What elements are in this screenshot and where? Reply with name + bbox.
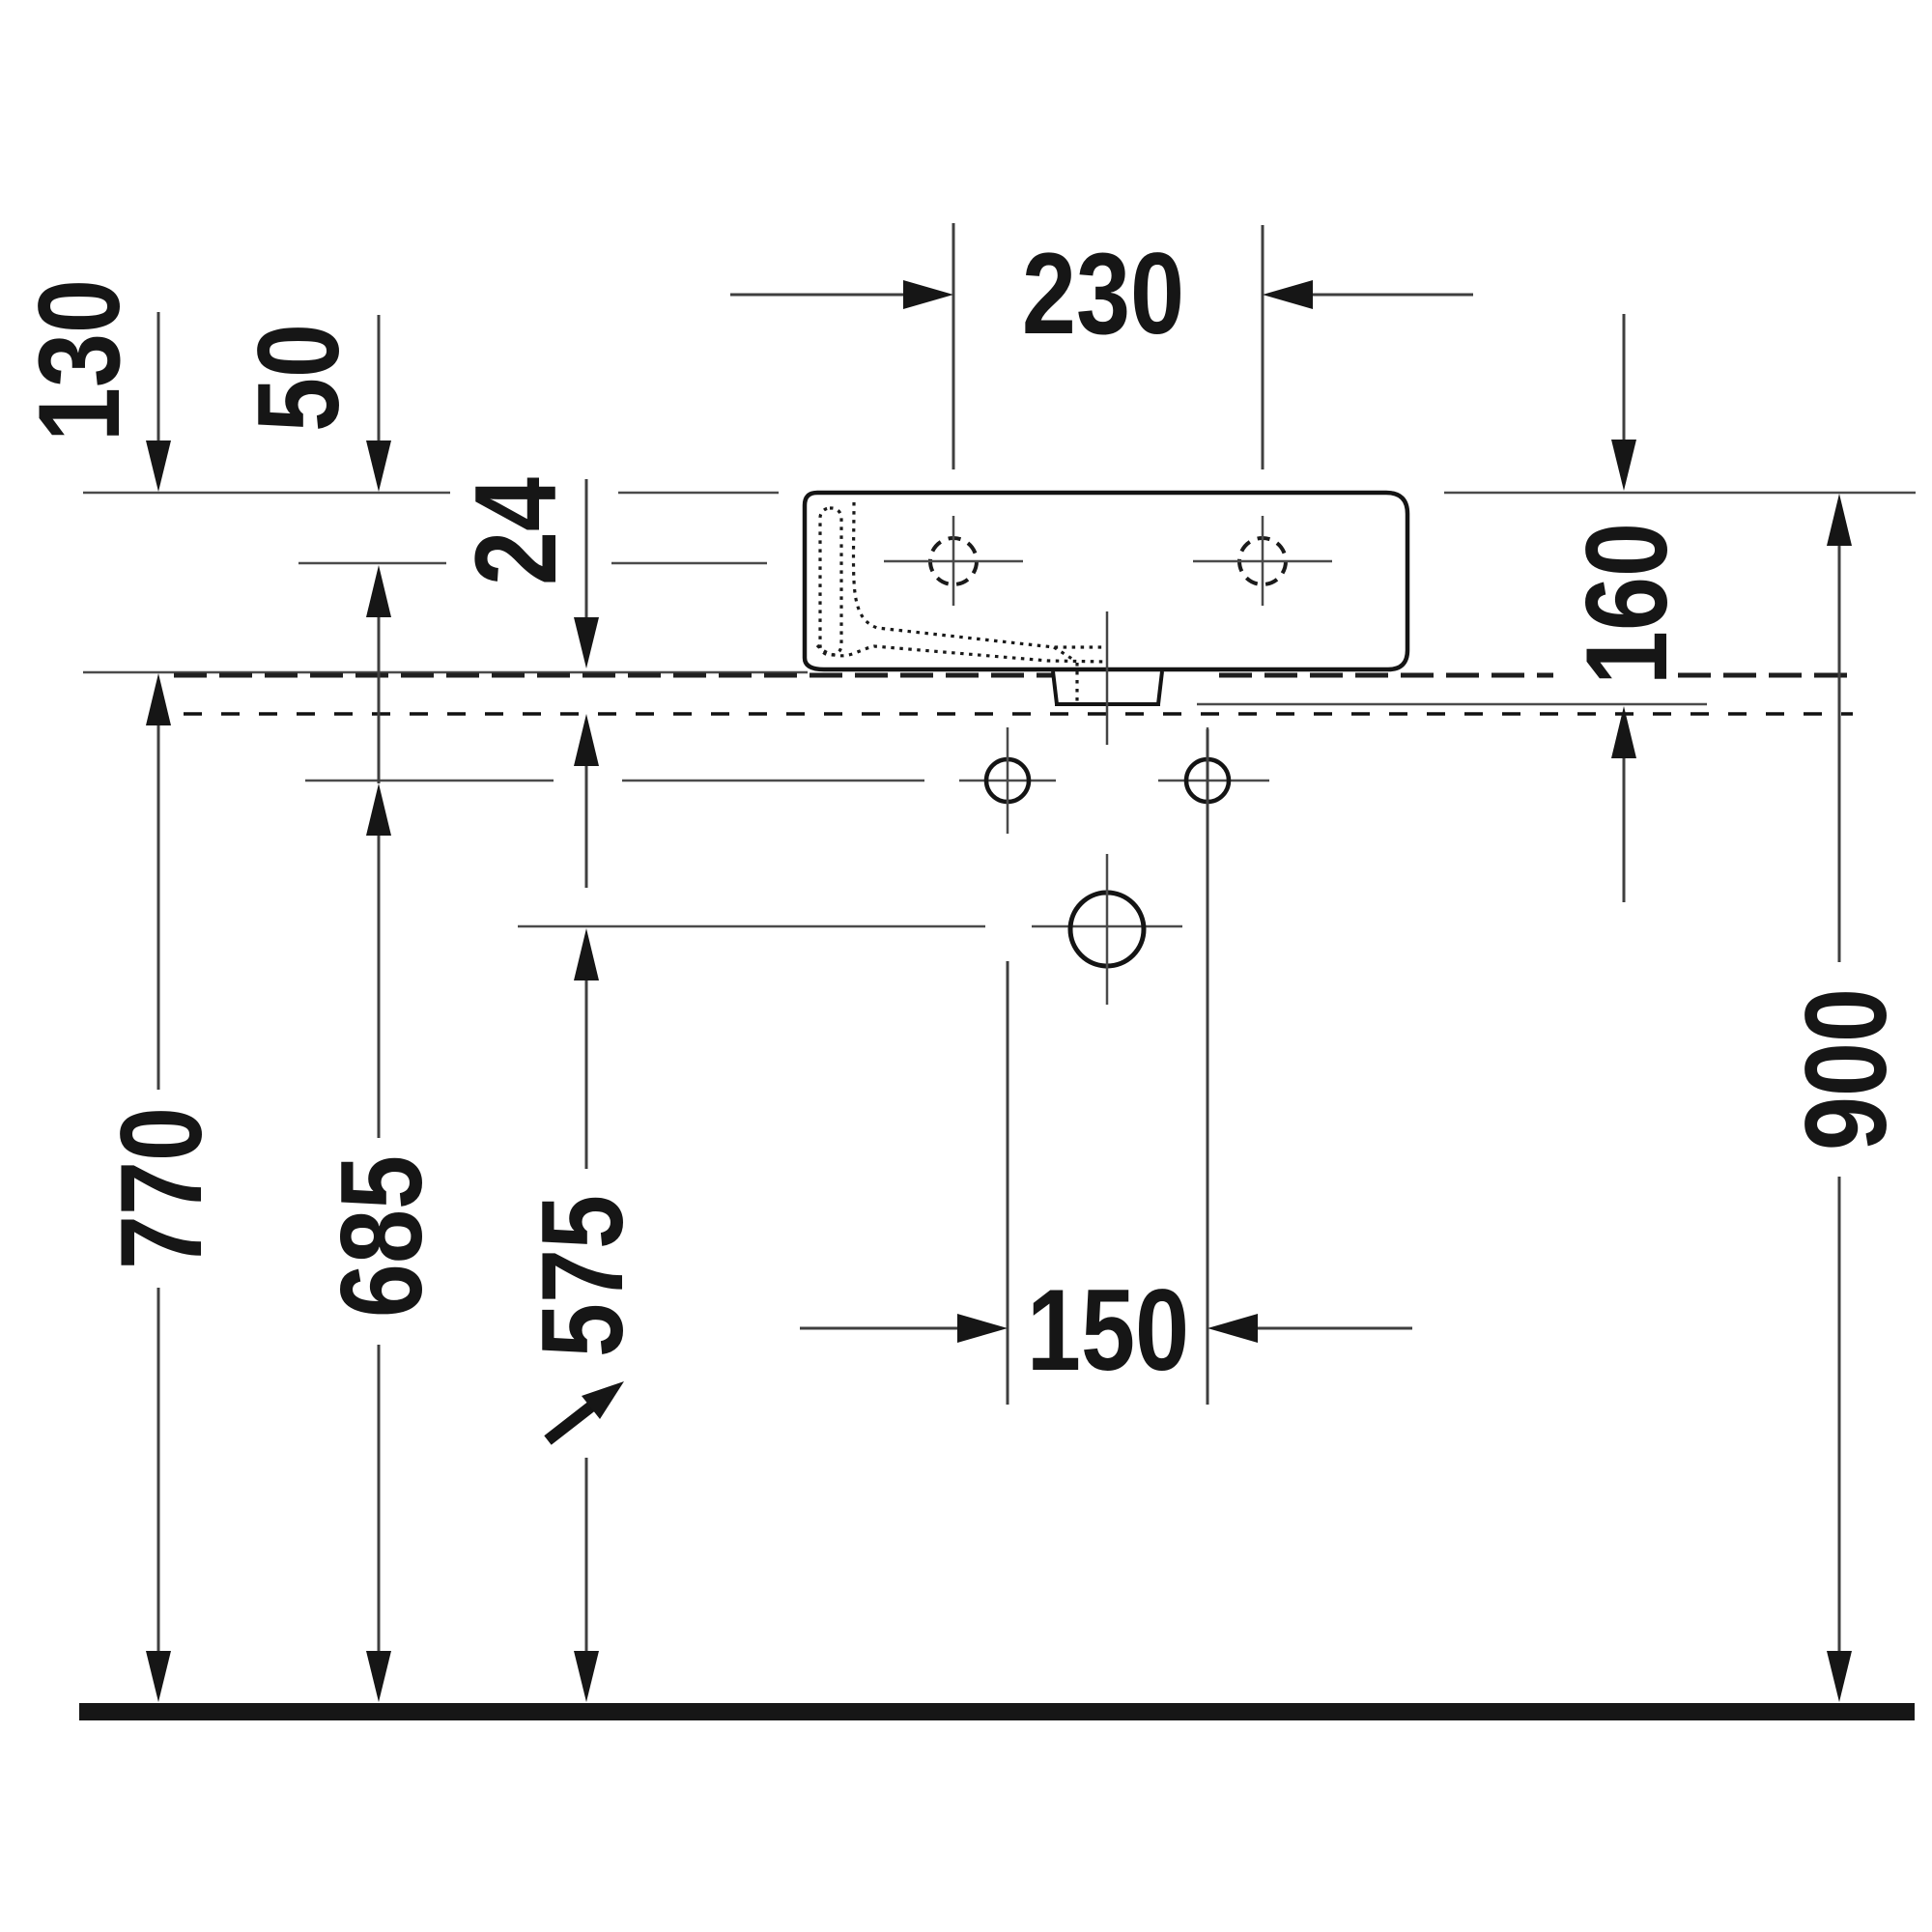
svg-text:900: 900: [1782, 988, 1911, 1151]
dimension 130-770 line x164: [157, 312, 160, 1651]
dimension 50-685 line x392: [378, 315, 381, 1651]
basin overflow slot dotted: [820, 508, 841, 655]
arrow up tip 511 x1904: [1827, 494, 1852, 546]
wire: fixing-hole axis y808 segments: [305, 780, 1269, 782]
fixing hole right crosshair vertical: [1207, 727, 1209, 834]
drain hole circle: [1070, 893, 1144, 966]
svg-text:150: 150: [1027, 1266, 1189, 1395]
arrow left tip 1307 y305: [1263, 280, 1313, 309]
dimension 160 line x1681: [1623, 314, 1626, 902]
svg-text:130: 130: [15, 279, 144, 441]
wire: rim reference line y510 right segment: [1444, 492, 1916, 495]
arrow up tip 731 x1681: [1611, 706, 1636, 758]
wall dashed line lower y739: [184, 712, 1853, 716]
wire: siphon cover line y729: [1197, 703, 1707, 706]
tap hole left dashed circle: [930, 538, 977, 584]
basin bowl profile dotted step: [1054, 647, 1075, 661]
arrow left tip 1250 y1375: [1207, 1314, 1258, 1343]
dimension 150 line y1375: [800, 1327, 1412, 1330]
tap hole right dashed circle: [1239, 538, 1286, 584]
arrow up tip 811 x392: [366, 783, 391, 836]
svg-text:685: 685: [318, 1155, 446, 1318]
arrow up tip 697 x164: [146, 673, 171, 725]
basin bowl profile dotted upper: [854, 502, 1108, 647]
fixing hole left crosshair vertical: [1007, 727, 1009, 834]
dimension 900 line x1904: [1838, 546, 1841, 1651]
dimension 150 extension line left x1043: [1007, 961, 1009, 1405]
dimension 230 line y305: [730, 294, 1473, 297]
drain pipe hidden dotted vertical: [1075, 663, 1078, 703]
dimension 230 extension line left x987: [952, 223, 955, 469]
arrow down tip 509 x392: [366, 440, 391, 492]
dimension 150 extension line right x1250: [1207, 729, 1209, 1405]
fixing hole left circle: [986, 759, 1029, 802]
svg-text:575: 575: [519, 1195, 647, 1357]
tap hole left crosshair: [884, 516, 1023, 606]
wire: basin underside solid line y696: [83, 671, 808, 674]
wire: rim reference line y510 left segment: [83, 492, 450, 495]
arrow up tip 585 x392: [366, 565, 391, 617]
svg-text:50: 50: [235, 324, 363, 432]
wire: tap deck line y583 right segment: [611, 562, 767, 565]
fixing hole right circle: [1186, 759, 1229, 802]
arrow down tip floor x607: [574, 1651, 599, 1702]
wall dashed line upper y700: [174, 673, 1853, 678]
dimension 24-575 line x607: [585, 479, 588, 1651]
arrow down tip 509 x164: [146, 440, 171, 492]
drain boss trapezoid: [1053, 671, 1162, 704]
arrow up tip 961 x607: [574, 928, 599, 980]
floor line: [79, 1703, 1915, 1720]
drain centreline: [1106, 611, 1109, 745]
wire: tap deck line y583 left segment: [298, 562, 446, 565]
arrow right tip 987 y305: [903, 280, 953, 309]
basin bowl profile dotted lower: [817, 645, 1107, 662]
arrow down tip 508 x1681: [1611, 440, 1636, 491]
drain hole crosshair vertical: [1106, 854, 1109, 1005]
svg-text:160: 160: [1563, 523, 1691, 685]
svg-text:24: 24: [452, 477, 581, 585]
tap hole right crosshair: [1193, 516, 1332, 606]
arrow down tip 692 x607: [574, 617, 599, 668]
arrow up tip 739 x607: [574, 714, 599, 766]
basin outline: [805, 493, 1407, 669]
slope arrow near 575: [548, 1406, 591, 1440]
arrow down tip floor x392: [366, 1651, 391, 1702]
arrow right tip 1043 y1375: [957, 1314, 1008, 1343]
arrow down tip floor x164: [146, 1651, 171, 1702]
svg-text:770: 770: [98, 1107, 226, 1269]
svg-text:230: 230: [1022, 230, 1184, 358]
wire: rim reference line y510 mid segment: [618, 492, 779, 495]
wire: drain axis y959 segments: [518, 925, 1182, 928]
dimension 230 extension line right x1307: [1262, 225, 1264, 469]
arrow down tip floor x1904: [1827, 1651, 1852, 1702]
